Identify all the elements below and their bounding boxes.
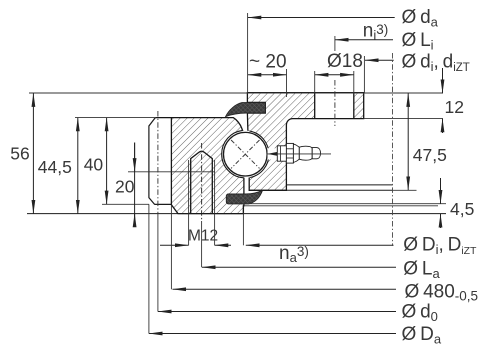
svg-text:12: 12 (445, 97, 464, 117)
extension bore d_i up (363, 56, 365, 93)
dimension 56 (32, 93, 34, 213)
grease nipple tip (312, 148, 320, 159)
grease nipple centerline with arrow to raceway (268, 153, 331, 155)
extension line gear tip down to D_a leader (148, 204, 150, 333)
top face extension line (29, 92, 443, 94)
svg-text:4,5: 4,5 (450, 199, 474, 219)
ball contact axis X (dash-dot diagonals) (231, 140, 259, 168)
dimension 44,5 (77, 118, 79, 214)
leader Ø d_a (248, 17, 395, 19)
extension line gear root down to 480 leader (170, 205, 172, 289)
top seal (226, 103, 266, 117)
inner ring bottom lip (thin unhatched strip) (286, 184, 392, 186)
dimension 40 (106, 118, 108, 205)
leader Ø 480-0,5 (173, 288, 397, 290)
leader Ø D_a (149, 333, 396, 335)
svg-text:Ø La: Ø La (403, 259, 440, 282)
raceway opening (white ring gap around ball) (222, 131, 269, 178)
leader Ø d_0 (158, 311, 396, 313)
bottom seal (226, 190, 262, 204)
ball (224, 132, 268, 176)
Ø18 hole centerline (n_i ref) (334, 36, 336, 51)
svg-text:M12: M12 (188, 228, 218, 245)
M12 thread depth line (20 ref) (128, 171, 215, 173)
svg-text:44,5: 44,5 (38, 157, 72, 177)
extension ~20 right (286, 69, 288, 97)
inner ring bottom extension (393, 189, 417, 191)
reference line d_i / D_i (dash-dot) (392, 53, 394, 246)
inner raceway arc (249, 131, 269, 178)
leader Ø D_i, D_iZT (246, 244, 394, 246)
svg-text:~ 20: ~ 20 (249, 51, 287, 72)
dimension 4,5 (outside arrows) (440, 195, 442, 204)
svg-text:47,5: 47,5 (413, 145, 447, 165)
extension Ø18 left/right (314, 71, 316, 93)
dimension 20 (outside arrows) (134, 143, 136, 223)
inner ring section (right, with mounting flange) (247, 93, 363, 191)
gear tooth strip (left edge of outer ring) (149, 118, 172, 205)
D_iZT edge and extension (242, 206, 244, 213)
grease nipple thread in wall (277, 146, 286, 161)
gear pitch line d_0 (dash-dot) (157, 111, 159, 216)
svg-text:Ø d0: Ø d0 (402, 302, 438, 325)
40 dim bottom extension (102, 203, 149, 205)
svg-text:ni3): ni3) (363, 21, 388, 43)
svg-text:Ø Di, DiZT: Ø Di, DiZT (403, 235, 477, 258)
grease duct clearance (268, 148, 287, 159)
svg-text:40: 40 (84, 154, 104, 174)
dimension ~20 (248, 74, 287, 76)
seal clearance lines (4,5 refs) (244, 203, 446, 205)
extension M12 centerline down to L_a leader (201, 221, 203, 267)
bottom face line (27, 213, 446, 215)
outer raceway arc (222, 130, 244, 178)
svg-text:na3): na3) (279, 243, 309, 265)
dimension Ø18 (315, 74, 354, 76)
dimension 47,5 (407, 93, 409, 190)
svg-text:Ø Da: Ø Da (402, 324, 442, 347)
outer ring section (left, with external gear) (155, 118, 244, 214)
leader Ø L_i / n_i (335, 39, 393, 41)
svg-text:Ø di, diZT: Ø di, diZT (402, 51, 470, 74)
svg-text:Ø 480-0,5: Ø 480-0,5 (405, 282, 479, 304)
svg-text:Ø18: Ø18 (327, 51, 363, 72)
leader Ø d_i, d_iZT (365, 59, 394, 61)
dimension M12 (outside arrows) (160, 244, 189, 246)
flange bottom extension (right) (364, 118, 443, 120)
extension lines M12 thread to M12 dim (188, 214, 190, 246)
grease nipple collar (286, 143, 293, 163)
extension d_a corner up (247, 13, 249, 93)
svg-text:Ø Li: Ø Li (402, 30, 434, 53)
svg-text:Ø da: Ø da (402, 7, 439, 30)
leader Ø L_a / n_a (202, 266, 396, 268)
M12 thread lines (188, 160, 190, 214)
M12 hole centerline (201, 143, 203, 221)
outer ring top face extension (left) (75, 117, 155, 119)
grease nipple neck and head (293, 144, 299, 163)
svg-text:56: 56 (10, 143, 29, 163)
svg-text:20: 20 (115, 177, 135, 197)
dimension 12 (outside arrows) (442, 68, 444, 93)
